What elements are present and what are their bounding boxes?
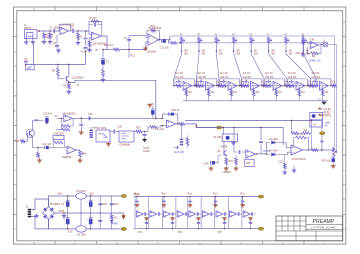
svg-text:D3 4148: D3 4148	[269, 139, 278, 141]
capacitor C21 EQ stage 1 parallel	[176, 80, 181, 86]
svg-text:R(+): R(+)	[240, 194, 245, 196]
wire buffer cell 8 out	[236, 213, 239, 215]
wire cap C60 stub	[136, 197, 138, 204]
label RP6 value	[271, 51, 275, 53]
capacitor C28	[176, 146, 179, 149]
svg-text:C33 33n: C33 33n	[220, 77, 229, 79]
svg-text:GND: GND	[59, 211, 64, 213]
node mid gnd	[63, 212, 64, 213]
label C44 val	[102, 204, 108, 206]
label J1 INPUT	[24, 27, 32, 30]
node EQ stage 7 input	[310, 85, 312, 87]
wire R12 to U2	[120, 42, 149, 50]
node pot RP7 wiper	[285, 50, 287, 52]
wire pot RP5 lower	[250, 43, 252, 51]
svg-text:AGND: AGND	[143, 150, 150, 153]
svg-text:U9 7915: U9 7915	[77, 233, 87, 236]
wire EQ stage 2 junction riser	[196, 79, 198, 86]
wire pad drop	[321, 121, 323, 131]
wire EQ stage 7 shunt to bus	[322, 87, 324, 101]
resistor box R21	[53, 136, 64, 140]
wire R19 left	[56, 129, 62, 131]
node C42 top	[90, 195, 91, 196]
node line B start	[196, 125, 197, 126]
label R1 47k	[45, 34, 54, 37]
node bus tap	[169, 39, 170, 40]
resistor R16	[171, 42, 177, 45]
label +12 net	[323, 108, 331, 111]
label C5 value	[53, 42, 57, 45]
node U2 out	[159, 39, 161, 41]
capacitor C29 riser	[259, 141, 263, 144]
bridge diode at 315deg	[43, 214, 47, 218]
resistor R34	[235, 158, 238, 164]
svg-text:(P): (P)	[325, 126, 328, 128]
ground below VR1	[78, 159, 83, 163]
wire buffer cell 6 out2	[212, 213, 214, 215]
node buffer top rail at 190	[189, 196, 190, 197]
wire pot RP7 lower	[285, 43, 287, 51]
wire x103 column top	[102, 50, 104, 58]
label -12 net	[323, 112, 330, 114]
svg-text:R29 1k: R29 1k	[172, 109, 180, 112]
wire C24 to Q5 base	[215, 155, 221, 163]
capacitor C45	[98, 219, 102, 222]
capacitor C25	[238, 150, 241, 154]
wire pot RP4 lower	[233, 43, 235, 51]
wire below U1A cap	[56, 35, 58, 45]
label D1 LED	[115, 218, 119, 220]
wire C28 stub	[174, 147, 176, 149]
label RP6 name	[271, 53, 276, 55]
op-amp U26 buffer	[202, 211, 209, 217]
wire U5 feedback box	[162, 114, 177, 124]
label buffer net 2	[188, 194, 193, 196]
label C1 100n	[50, 27, 60, 30]
label EQ stage 5 R value	[265, 73, 273, 75]
wire buffer bottom rail	[134, 228, 258, 230]
net label OUT blue	[174, 151, 184, 154]
node pot RP6 wiper	[268, 50, 270, 52]
node buffer top rail at 215.5	[215, 196, 216, 197]
relay K2 coil dot	[312, 114, 316, 118]
resistor R9 emitter	[68, 84, 71, 89]
ground above cap C70	[144, 217, 149, 220]
label C7b	[96, 50, 100, 52]
wire pad1 stub	[119, 195, 121, 197]
svg-text:C30: C30	[279, 161, 284, 163]
ground below R3	[76, 41, 81, 45]
wire buffer cell 1 out2	[146, 213, 148, 215]
wire diode feed upper	[266, 143, 270, 154]
wire EQ stage 6 shunt to bus	[298, 87, 300, 101]
wire branch down	[80, 118, 82, 123]
capacitor C31	[320, 140, 323, 143]
op-amp U16 EQ stage 6	[296, 81, 305, 90]
gold pad P1 +15	[121, 195, 126, 198]
wire pot RP6 top	[268, 36, 270, 38]
ground below C5	[56, 49, 61, 53]
wire buffer cell 9 rail drop	[241, 197, 243, 229]
wire EQ stage 3 shunt to bus	[230, 87, 232, 101]
svg-text:U4B 5532: U4B 5532	[54, 134, 65, 136]
label C10 4u7	[43, 113, 53, 116]
gold pad P2 -15	[121, 227, 126, 230]
label buffer net 4	[240, 194, 245, 196]
svg-text:AGND +15: AGND +15	[309, 59, 321, 62]
resistor R23 EQ stage 3 input	[221, 84, 226, 87]
regulator U9 7915 oval	[76, 226, 86, 232]
resistor R27	[136, 130, 142, 133]
wire C24 gnd stub	[210, 165, 212, 167]
ground mid rail	[62, 214, 67, 218]
filter box L2	[25, 64, 34, 70]
label J5	[90, 127, 99, 130]
wire to lower bus	[185, 124, 217, 128]
svg-text:C: C	[343, 168, 345, 172]
svg-text:U1A NE5532: U1A NE5532	[60, 24, 75, 27]
svg-text:C24: C24	[204, 163, 209, 166]
capacitor C23 EQ stage 3 parallel	[221, 80, 226, 86]
label EQ stage 6 R value	[288, 73, 296, 75]
capacitor C52 buffer out	[157, 212, 160, 215]
wire U6 gnd stub	[293, 166, 295, 169]
resistor R41 EQ stage 1 shunt	[185, 89, 188, 96]
label VR2 10k	[321, 160, 331, 162]
ground below C23	[79, 131, 84, 135]
label R31	[195, 82, 200, 84]
resistor R44 EQ stage 4 shunt	[252, 89, 255, 96]
wire buffer cell 5 rail drop	[187, 197, 189, 229]
wire EQ stage 6 feedback loop	[287, 79, 307, 86]
wire U9 out rail	[86, 228, 119, 230]
op-amp U1B	[92, 32, 102, 40]
wire emitter output run	[69, 80, 156, 118]
node at relay drop	[233, 127, 235, 129]
wire pot RP5 top	[250, 36, 252, 38]
node U5 out	[177, 123, 179, 125]
op-amp U29 buffer	[243, 211, 250, 217]
wire output line B	[196, 128, 283, 146]
relay K1 coil dot	[226, 136, 230, 140]
wire to output bus	[328, 45, 337, 153]
wire x129 vertical	[128, 36, 130, 58]
svg-text:IN: IN	[55, 115, 58, 118]
label L1	[323, 40, 326, 42]
op-amp U1A	[60, 27, 69, 35]
resistor R38	[302, 40, 305, 44]
wire U8 gnd pin	[80, 199, 82, 213]
label -15V	[68, 231, 73, 233]
capacitor C4 feedback U1B	[94, 23, 97, 27]
resistor R41 series	[312, 149, 319, 152]
svg-text:U6 LM741CN: U6 LM741CN	[292, 158, 307, 161]
wire pot 8 wiper diagonal	[303, 52, 317, 86]
wire buffer cell 8 out2	[240, 213, 242, 215]
wire buffer cell 5 out	[195, 213, 198, 215]
resistor R32 EQ stage 2 series	[218, 84, 223, 87]
ground below R33	[224, 167, 229, 170]
net label AGND blue	[309, 59, 321, 62]
resistor R26 EQ stage 6 input	[289, 84, 294, 87]
wire relay drop	[222, 128, 224, 135]
wire U4A input stub	[57, 117, 64, 119]
node buffer top rail at 164	[163, 196, 164, 197]
wire R11 to ground	[102, 77, 104, 79]
wire R16 to EQ node	[177, 42, 181, 44]
svg-text:C:\TI F02B_SCH4M: C:\TI F02B_SCH4M	[311, 225, 337, 229]
svg-text:H: H	[343, 20, 345, 24]
capacitor C61 from top rail	[162, 200, 165, 203]
node long wire tap	[68, 64, 70, 66]
wire to R12	[107, 49, 114, 51]
diode D3	[272, 141, 275, 144]
label RP7 value	[289, 51, 293, 53]
wire bus riser	[169, 36, 171, 40]
wire EQ stage 4 shunt to bus	[253, 87, 255, 101]
wire pot RP3 top	[215, 36, 217, 38]
svg-text:H: H	[14, 20, 16, 24]
resistor R15 feedback	[151, 29, 156, 32]
wire U1B feedback loop	[89, 21, 102, 36]
potentiometer VR2	[332, 147, 337, 156]
wire EQ stage 4 feedback loop	[242, 79, 262, 86]
wire C26 stub top	[152, 106, 154, 109]
node EQ stage 3 output	[239, 85, 240, 86]
label C22	[88, 113, 93, 116]
svg-text:4k7 1%: 4k7 1%	[265, 73, 273, 75]
net label IN left	[55, 115, 58, 118]
label K2	[313, 124, 317, 126]
node U6 out	[308, 149, 310, 151]
node EQ stage 4 input	[241, 85, 243, 87]
label C9	[124, 37, 128, 40]
wire buffer cell 3 rail drop	[161, 197, 163, 229]
svg-text:R33: R33	[229, 161, 234, 163]
label R33	[240, 82, 245, 84]
resistor R24 EQ stage 4 input	[244, 84, 249, 87]
wire aux line to U5	[158, 126, 162, 127]
svg-text:C20: C20	[118, 125, 123, 128]
label RP5 value	[254, 51, 258, 53]
label U2	[148, 27, 162, 30]
node x155 join	[155, 118, 157, 120]
wire R1 bottom	[43, 38, 45, 40]
svg-text:F: F	[14, 79, 16, 83]
wire cap C64 stub	[242, 197, 244, 204]
wire R8 top	[57, 64, 59, 68]
capacitor C72 from bottom rail	[197, 221, 200, 224]
label EQ stage 6 C value	[288, 77, 297, 79]
wire bridge plus up	[49, 196, 76, 207]
capacitor C44	[98, 203, 102, 206]
node U4A out branch	[80, 118, 82, 120]
wire buffer cell 4 out2	[187, 213, 189, 215]
node pot RP2 wiper	[198, 50, 200, 52]
svg-text:K1 G5V: K1 G5V	[214, 136, 223, 139]
wire R43 to vert	[310, 121, 311, 134]
wire pad2 stub	[119, 228, 121, 230]
wire R2 stub	[49, 31, 51, 40]
label buffer net 1	[162, 194, 167, 196]
node pot RP1 wiper	[181, 50, 183, 52]
wire buffer cell 5 out2	[199, 213, 201, 215]
node U3B fb left	[307, 53, 308, 54]
svg-text:Vr 1k4: Vr 1k4	[81, 51, 88, 54]
label R34	[262, 82, 267, 84]
capacitor C41 electrolytic	[66, 218, 70, 225]
label EQ stage 4 C value	[243, 77, 252, 79]
wire buffer top rail	[134, 196, 258, 198]
node EQ stage 5 output	[284, 85, 285, 86]
node C8 wire	[25, 64, 26, 65]
label U8 7815	[77, 190, 87, 193]
ground at J2	[34, 214, 39, 218]
capacitor C46	[110, 203, 114, 206]
wire S1 to C20	[110, 131, 113, 133]
gold pad P3	[217, 126, 222, 129]
wire VR1 to ground	[79, 157, 81, 159]
wire pot RP4 top	[233, 36, 235, 38]
plus mark C43	[86, 218, 88, 221]
connector J6 pins	[180, 139, 183, 146]
svg-text:4k7 1%: 4k7 1%	[243, 73, 251, 75]
wire pot 3 wiper diagonal	[216, 52, 219, 79]
potentiometer RP2	[198, 38, 203, 44]
svg-text:D4 4148: D4 4148	[269, 150, 278, 152]
wire U6 fb loop	[294, 138, 296, 147]
switch S1 box	[96, 130, 110, 142]
gold pad P5	[258, 195, 263, 198]
wire return left seg	[26, 63, 34, 65]
node riser top	[260, 127, 262, 129]
svg-text:Q1 2N5551: Q1 2N5551	[72, 76, 85, 79]
ground below C24	[209, 167, 214, 170]
node x129 cross	[128, 49, 130, 51]
wire C42 stubs	[90, 196, 92, 213]
node R2 top	[49, 30, 50, 31]
label U4B name	[63, 156, 72, 159]
connector J2 AC input	[28, 209, 31, 218]
label RP1 value	[184, 51, 188, 53]
wire pot RP6 lower	[268, 43, 270, 51]
plus mark C42	[86, 200, 88, 203]
op-amp U17 EQ stage 7	[320, 81, 329, 90]
relay K1	[222, 134, 237, 142]
wire R38 to ground	[302, 45, 304, 53]
svg-text:A: A	[343, 227, 345, 231]
op-amp U23 buffer	[164, 211, 171, 217]
wire R22 loop right	[64, 140, 66, 148]
label R44 value	[256, 92, 260, 94]
ground below U6 area	[292, 169, 297, 173]
wire pot 6 wiper diagonal	[269, 52, 287, 79]
node pot RP3 wiper	[216, 50, 218, 52]
wire C4 loop	[89, 24, 93, 26]
ground below R1	[42, 40, 47, 44]
wire buffer cell 6 rail drop	[200, 197, 202, 229]
label R8 10k	[52, 70, 56, 73]
node x103	[102, 49, 103, 50]
resistor R40 feedback	[296, 136, 306, 139]
capacitor C26 electrolytic	[151, 109, 154, 115]
svg-text:U8 7815: U8 7815	[77, 190, 87, 193]
label R5 feedback	[90, 17, 97, 20]
wire buffer cell 4 out	[183, 213, 186, 215]
label RP3 ref	[215, 34, 219, 36]
wire R3 stub	[77, 31, 79, 41]
svg-text:R12 10k: R12 10k	[104, 44, 114, 47]
capacitor C27 EQ stage 7 parallel	[313, 80, 318, 86]
node buffer bottom rail at 250.5	[250, 228, 251, 229]
node EQ stage 1 input	[173, 85, 175, 87]
wire C6 up segment	[85, 40, 87, 46]
wire pot RP1 lower	[181, 43, 183, 51]
node VR2 top	[333, 149, 335, 151]
wire EQ stage 2 feedback loop	[197, 79, 217, 86]
wire x129 top to U2 minus	[129, 36, 148, 38]
ground below C32	[331, 164, 336, 168]
svg-text:F: F	[343, 79, 345, 83]
label RP4 ref	[232, 34, 236, 36]
wire C6b to node	[85, 31, 87, 37]
IC U9 box	[119, 131, 134, 142]
wire EQ stage 5 feedback loop	[264, 79, 284, 86]
resistor R22 EQ stage 2 input	[199, 84, 204, 87]
wire K1 to Q5	[223, 142, 225, 150]
svg-text:CD4066B: CD4066B	[120, 144, 131, 147]
resistor R36 shunt	[283, 163, 286, 168]
ground below R20	[37, 159, 42, 163]
svg-text:C12 4u7: C12 4u7	[43, 143, 53, 146]
svg-text:+12 (K): +12 (K)	[323, 108, 331, 111]
label D3	[269, 139, 278, 141]
label RP8 name	[306, 53, 311, 55]
label psu gnd	[59, 211, 64, 213]
wire C40 stubs	[67, 196, 69, 213]
resistor R45 led	[110, 215, 113, 220]
op-amp U28 buffer	[230, 211, 237, 217]
label R35	[285, 82, 290, 84]
wire pot RP8 lower	[302, 43, 304, 51]
label R42 value	[211, 92, 215, 94]
op-amp U7	[246, 150, 256, 158]
wire U5 plus in	[162, 125, 166, 127]
wire EQ stage 5 junction riser	[263, 79, 265, 86]
wire U5 out run	[176, 123, 179, 125]
node relay tap	[223, 127, 224, 128]
wire U2 out	[159, 39, 162, 41]
gold pad P6	[258, 227, 263, 230]
wire R20 stubs	[37, 148, 39, 159]
svg-text:4k7 1%: 4k7 1%	[175, 73, 183, 75]
connector J5 aux pins	[90, 130, 93, 139]
capacitor C1	[53, 29, 56, 33]
label R40 10k	[295, 133, 305, 136]
capacitor C32 electrolytic	[332, 157, 335, 162]
capacitor C11 at Q2 top	[35, 120, 38, 121]
wire cap C62 stub	[189, 197, 191, 204]
capacitor C20	[113, 130, 116, 134]
node buffer bottom rail at 224.5	[224, 228, 225, 229]
label J1 name	[24, 24, 27, 27]
label L2	[25, 59, 29, 61]
op-amp U21 buffer	[136, 211, 143, 217]
wire buffer cell 4 rail drop	[175, 197, 177, 229]
op-amp U25 buffer	[189, 211, 196, 217]
label R2 value	[47, 38, 51, 40]
label VR1	[83, 154, 88, 156]
